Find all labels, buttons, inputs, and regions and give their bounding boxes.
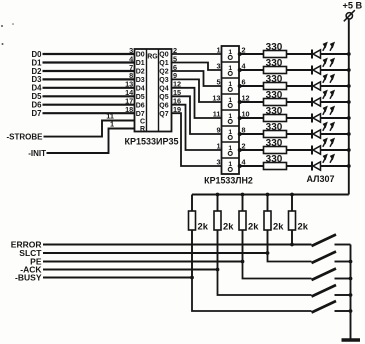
LED VD5 light arrows — [323, 107, 334, 115]
svg-text:D7: D7 — [136, 111, 145, 118]
node pull-up rail junction 5 — [290, 193, 294, 197]
wire switch SA1 to ground rail — [335, 244, 351, 246]
wire LED to +5V rail row 6 — [321, 133, 349, 135]
LED VD7 light arrows — [323, 139, 334, 147]
wire resistor to LED row 7 — [287, 149, 313, 151]
LED VD4 АЛ307 — [311, 98, 313, 107]
node 2k #4 to signal line — [266, 251, 270, 255]
wire -INIT to pin R — [47, 129, 135, 154]
svg-text:2k: 2k — [198, 221, 209, 232]
LED VD4 light arrows — [323, 91, 334, 99]
svg-text:Q7: Q7 — [159, 111, 168, 118]
svg-text:КР1533ЛН2: КР1533ЛН2 — [204, 176, 253, 186]
svg-text:D4: D4 — [136, 86, 145, 93]
wire resistor to LED row 4 — [287, 101, 313, 103]
wire -STROBE to pin C — [44, 121, 135, 137]
wire 2k #3 lower lead — [242, 230, 244, 262]
svg-text:330: 330 — [266, 74, 283, 85]
connector pin symbol +5V — [346, 13, 352, 19]
node 2k #5 to signal line — [290, 243, 294, 247]
svg-text:D0: D0 — [136, 52, 145, 59]
resistor 2k #2 — [217, 195, 219, 212]
op-amp U1 register КР1533ИР35 body — [135, 49, 172, 132]
wire -ACK route to switch 4 — [218, 270, 312, 296]
svg-text:Q1: Q1 — [159, 60, 168, 67]
wire ground rail vertical — [350, 245, 352, 339]
svg-text:Q0: Q0 — [159, 52, 168, 59]
wire switch SA3 to ground rail — [335, 278, 351, 280]
wire switch SA2 to ground rail — [335, 261, 351, 263]
svg-text:9: 9 — [216, 126, 220, 135]
svg-text:330: 330 — [266, 58, 283, 69]
node 2k #1 to signal line — [190, 276, 194, 280]
svg-text:D1: D1 — [136, 60, 145, 67]
svg-text:330: 330 — [266, 90, 283, 101]
wire Q0 to inverter input — [172, 53, 222, 55]
wire resistor to LED row 1 — [287, 53, 313, 55]
svg-text:Q3: Q3 — [159, 77, 168, 84]
svg-text:D6: D6 — [136, 102, 145, 109]
svg-text:330: 330 — [266, 138, 283, 149]
inverter 5 output bubble — [238, 116, 242, 120]
wire inverter 5 output to resistor — [241, 117, 264, 119]
wire Q3 to inverter input — [172, 79, 222, 102]
wire LED to +5V rail row 7 — [321, 149, 349, 151]
wire 2k #4 lower lead — [267, 230, 269, 253]
inverter U2 cell 8 — [222, 157, 240, 159]
resistor 330 row 4 — [264, 99, 287, 106]
LED VD8 light arrows — [323, 155, 334, 163]
wire inverter 1 output to resistor — [241, 53, 264, 55]
svg-text:Q6: Q6 — [159, 102, 168, 109]
node rail row 7 — [347, 148, 351, 152]
wire Q5 to inverter input — [172, 96, 222, 134]
resistor 330 row 5 — [264, 115, 287, 122]
switch SA2 — [312, 252, 337, 264]
wire Q2 to inverter input — [172, 71, 222, 86]
svg-text:Q4: Q4 — [159, 86, 168, 93]
wire LED to +5V rail row 4 — [321, 101, 349, 103]
svg-text:330: 330 — [266, 42, 283, 53]
svg-text:11: 11 — [213, 110, 221, 119]
wire D6 to register input — [43, 104, 135, 106]
wire inverter 7 output to resistor — [241, 149, 264, 151]
svg-text:R: R — [140, 126, 145, 133]
wire PE route to switch 3 — [243, 262, 312, 279]
resistor 2k #5 — [291, 195, 293, 212]
wire SLCT route to switch 2 — [268, 253, 312, 262]
wire LED to +5V rail row 3 — [321, 85, 349, 87]
wire Q4 to inverter input — [172, 88, 222, 118]
svg-text:D3: D3 — [136, 77, 145, 84]
wire 2k #2 lower lead — [217, 230, 219, 270]
inverter U2 cell 5 — [222, 109, 240, 111]
wire Q1 to inverter input — [172, 63, 222, 71]
inverter array U2 КР1533ЛН2 body — [222, 46, 240, 174]
wire -ACK line — [43, 268, 218, 270]
LED VD3 light arrows — [323, 75, 334, 83]
LED VD2 АЛ307 — [311, 66, 313, 75]
wire Q7 to inverter input — [172, 113, 222, 166]
wire SLCT line — [43, 252, 268, 254]
wire LED to +5V rail row 1 — [321, 53, 349, 55]
wire D4 to register input — [43, 87, 135, 89]
svg-text:КР1533ИР35: КР1533ИР35 — [125, 137, 179, 147]
node 2k #2 to signal line — [216, 268, 220, 272]
LED VD6 light arrows — [323, 123, 334, 131]
svg-text:330: 330 — [266, 106, 283, 117]
inverter 1 output bubble — [238, 52, 242, 56]
inverter 7 output bubble — [238, 148, 242, 152]
svg-text:1: 1 — [110, 119, 114, 128]
node rail row 6 — [347, 132, 351, 136]
wire Q6 to inverter input — [172, 105, 222, 150]
inverter U2 cell 4 — [222, 93, 240, 95]
wire LED to +5V rail row 5 — [321, 117, 349, 119]
wire inverter 8 output to resistor — [241, 165, 264, 167]
wire D0 to register input — [43, 53, 135, 55]
svg-text:2k: 2k — [273, 221, 284, 232]
svg-text:АЛ307: АЛ307 — [307, 174, 335, 184]
LED VD1 light arrows — [323, 43, 334, 51]
wire D2 to register input — [43, 70, 135, 72]
ground — [342, 338, 361, 342]
svg-text:1: 1 — [216, 46, 220, 55]
svg-text:D2: D2 — [136, 69, 145, 76]
svg-text:Q5: Q5 — [159, 94, 168, 101]
wire 2k #1 lower lead — [191, 230, 193, 278]
svg-text:Q2: Q2 — [159, 69, 168, 76]
wire 2k #5 lower lead — [291, 230, 293, 245]
node rail row 5 — [347, 116, 351, 120]
inverter 3 output bubble — [238, 84, 242, 88]
wire resistor to LED row 2 — [287, 69, 313, 71]
svg-text:13: 13 — [212, 94, 220, 103]
svg-text:-STROBE: -STROBE — [7, 133, 44, 142]
svg-text:1: 1 — [216, 142, 220, 151]
wire inverter 3 output to resistor — [241, 85, 264, 87]
resistor 2k #4 — [267, 195, 269, 212]
resistor 330 row 8 — [264, 163, 287, 170]
node pull-up rail junction 3 — [241, 193, 245, 197]
wire inverter 2 output to resistor — [241, 69, 264, 71]
inverter 6 output bubble — [238, 132, 242, 136]
wire resistor to LED row 5 — [287, 117, 313, 119]
wire -BUSY route to switch 5 — [192, 278, 312, 312]
wire LED to +5V rail row 8 — [321, 165, 349, 167]
wire switch SA4 to ground rail — [335, 294, 351, 296]
LED VD2 light arrows — [323, 59, 334, 67]
resistor 330 row 2 — [264, 67, 287, 74]
node ground rail junction 5 — [349, 309, 353, 313]
svg-text:RG: RG — [147, 54, 158, 61]
svg-text:3: 3 — [216, 158, 220, 167]
svg-text:+5 В: +5 В — [343, 1, 363, 11]
svg-text:2k: 2k — [248, 221, 259, 232]
LED VD8 АЛ307 — [311, 162, 313, 171]
inverter 8 output bubble — [238, 164, 242, 168]
switch SA1 — [312, 235, 337, 247]
wire ERROR line — [43, 243, 312, 245]
svg-text:D5: D5 — [136, 94, 145, 101]
svg-text:5: 5 — [216, 78, 220, 87]
svg-text:C: C — [140, 119, 145, 126]
LED VD1 АЛ307 — [311, 50, 313, 59]
wire -BUSY line — [43, 276, 192, 278]
switch SA3 — [312, 269, 337, 281]
wire inverter 4 output to resistor — [241, 101, 264, 103]
wire +5V rail vertical — [348, 19, 350, 195]
svg-text:3: 3 — [216, 62, 220, 71]
svg-text:D7: D7 — [32, 109, 42, 118]
resistor 330 row 1 — [264, 51, 287, 58]
wire PE line — [43, 260, 243, 262]
switch SA5 — [312, 301, 337, 313]
svg-text:330: 330 — [266, 154, 283, 165]
LED VD7 АЛ307 — [311, 146, 313, 155]
wire D1 to register input — [43, 61, 135, 63]
resistor 330 row 6 — [264, 131, 287, 138]
node ground rail junction 2 — [349, 260, 353, 264]
inverter 4 output bubble — [238, 100, 242, 104]
svg-text:2k: 2k — [298, 221, 309, 232]
inverter U2 cell 3 — [222, 77, 240, 79]
node rail row 3 — [347, 84, 351, 88]
node rail row 4 — [347, 100, 351, 104]
wire switch SA5 to ground rail — [335, 310, 351, 312]
svg-text:-BUSY: -BUSY — [15, 273, 42, 283]
inverter 2 output bubble — [238, 68, 242, 72]
wire resistor to LED row 8 — [287, 165, 313, 167]
node ground rail junction 4 — [349, 293, 353, 297]
node ground rail junction 3 — [349, 277, 353, 281]
wire resistor to LED row 6 — [287, 133, 313, 135]
resistor 330 row 7 — [264, 147, 287, 154]
node pull-up rail junction 2 — [216, 193, 220, 197]
inverter U2 cell 7 — [222, 141, 240, 143]
wire D5 to register input — [43, 95, 135, 97]
resistor 2k #1 — [191, 195, 193, 212]
LED VD6 АЛ307 — [311, 130, 313, 139]
svg-text:18: 18 — [125, 105, 133, 114]
svg-text:2k: 2k — [223, 221, 234, 232]
node 2k #3 to signal line — [241, 260, 245, 264]
resistor 2k #3 — [242, 195, 244, 212]
wire D7 to register input — [43, 112, 135, 114]
LED VD5 АЛ307 — [311, 114, 313, 123]
wire resistor to LED row 3 — [287, 85, 313, 87]
inverter U2 cell 6 — [222, 125, 240, 127]
wire pull-up rail to +5V — [192, 194, 349, 196]
LED VD3 АЛ307 — [311, 82, 313, 91]
svg-text:330: 330 — [266, 122, 283, 133]
wire LED to +5V rail row 2 — [321, 69, 349, 71]
resistor 330 row 3 — [264, 83, 287, 90]
node rail row 1 — [347, 52, 351, 56]
wire D3 to register input — [43, 78, 135, 80]
inverter U2 cell 2 — [222, 61, 240, 63]
node pull-up rail junction 4 — [266, 193, 270, 197]
wire inverter 6 output to resistor — [241, 133, 264, 135]
node rail row 2 — [347, 68, 351, 72]
node rail row 8 — [347, 164, 351, 168]
switch SA4 — [312, 285, 337, 297]
svg-text:-INIT: -INIT — [28, 149, 46, 158]
